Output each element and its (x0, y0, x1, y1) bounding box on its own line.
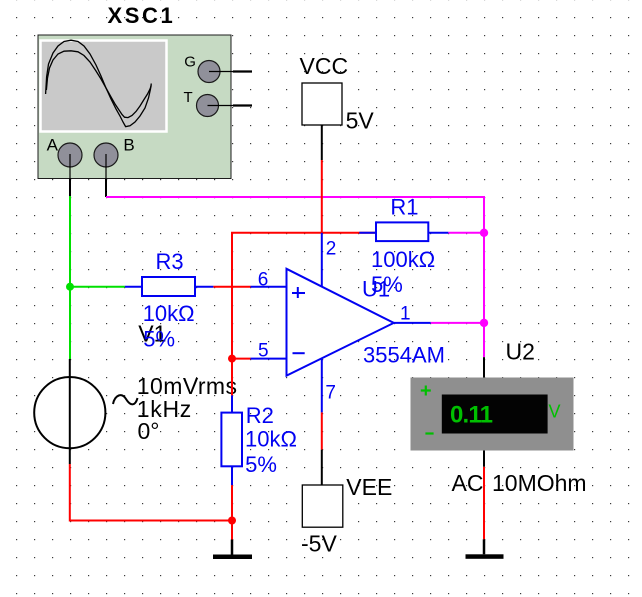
terminal A (58, 143, 82, 167)
node green junction (66, 283, 74, 291)
wire pin 7 black to VEE (321, 450, 323, 485)
V1 tilde symbol (113, 395, 138, 404)
wire red bottom left (70, 464, 232, 521)
ground 1 (231, 540, 234, 555)
source V1 (34, 377, 105, 448)
terminal B (94, 143, 118, 167)
node red junction bottom (228, 517, 236, 525)
resistor R1 (376, 222, 428, 241)
svg-text:10kΩ: 10kΩ (143, 301, 195, 326)
node red junction pin5 (228, 355, 236, 363)
scope trace B (46, 51, 151, 118)
svg-text:6: 6 (258, 269, 269, 290)
wire output blue (394, 322, 431, 324)
resistor R3 (142, 277, 195, 296)
wire red to ground1 (231, 485, 233, 539)
wire pin 7 red (321, 412, 323, 449)
svg-text:VEE: VEE (346, 474, 392, 500)
wire blue into pin 6 (251, 286, 287, 288)
svg-text:XSC1: XSC1 (108, 3, 176, 28)
wire magenta horizontal top (106, 197, 484, 357)
svg-text:A: A (47, 136, 59, 155)
svg-text:U1: U1 (362, 276, 390, 301)
wire blue into pin 5 (251, 358, 287, 360)
svg-text:0.11: 0.11 (450, 402, 493, 429)
wire V1 vertical black (69, 359, 71, 464)
svg-text:10kΩ: 10kΩ (245, 427, 297, 452)
svg-text:T: T (184, 89, 193, 106)
wire red pin5 stub (232, 358, 251, 360)
svg-text:R3: R3 (156, 249, 184, 274)
terminal G (198, 61, 220, 83)
svg-text:VCC: VCC (300, 53, 349, 79)
node magenta junction output (480, 319, 488, 327)
svg-text:5%: 5% (143, 326, 175, 351)
svg-text:R1: R1 (390, 195, 418, 220)
svg-text:AC: AC (452, 470, 484, 496)
svg-text:0°: 0° (138, 418, 160, 444)
wire VCC red (321, 160, 323, 233)
power VEE (302, 485, 343, 527)
wire B black segment (105, 179, 107, 197)
svg-text:B: B (123, 136, 134, 155)
wire green horizontal to R3 (70, 286, 125, 288)
wire VCC black (321, 125, 323, 160)
wire red down to R2 (231, 359, 233, 396)
svg-text:100kΩ: 100kΩ (371, 247, 435, 272)
svg-text:U2: U2 (506, 339, 535, 365)
meter plus mark (421, 386, 431, 396)
svg-text:10MOhm: 10MOhm (492, 470, 587, 496)
wire blue pin 2 (321, 233, 323, 287)
wire meter top black (483, 357, 485, 377)
wire A green vertical (69, 196, 71, 359)
meter minus mark (425, 432, 433, 434)
svg-text:R2: R2 (246, 403, 274, 428)
oscilloscope screen (41, 41, 167, 132)
op-amp U1 (287, 269, 394, 376)
svg-text:5%: 5% (245, 452, 277, 477)
wire meter red (483, 467, 485, 540)
wire meter bottom black (483, 451, 485, 467)
svg-text:5: 5 (258, 341, 269, 362)
svg-text:-5V: -5V (301, 530, 337, 556)
wire R3 right lead blue (195, 286, 213, 288)
svg-text:7: 7 (325, 383, 336, 404)
wire R1 right lead blue (428, 232, 448, 234)
wire A black segment (69, 179, 71, 197)
wire output magenta (431, 322, 484, 324)
wire pin 7 blue (321, 359, 323, 413)
svg-text:G: G (184, 53, 196, 70)
wire G stub (233, 70, 252, 72)
scope trace A (46, 40, 152, 126)
svg-text:2: 2 (326, 239, 337, 260)
wire T stub (233, 104, 252, 106)
power VCC (302, 83, 342, 125)
ground 2 (483, 539, 486, 554)
wire R1 left lead blue (359, 232, 376, 234)
wire red vertical center net (232, 233, 377, 359)
wire R3 left lead blue (125, 286, 142, 288)
oscilloscope XSC1 body (38, 35, 231, 179)
svg-text:V: V (549, 402, 561, 422)
wire blue R2 top lead (231, 395, 233, 412)
wire magenta R1 to node (448, 232, 484, 234)
svg-text:3554AM: 3554AM (363, 343, 445, 368)
svg-text:1: 1 (400, 304, 411, 325)
wire red segment on pin6 row (213, 286, 250, 288)
node magenta junction R1 (480, 229, 488, 237)
resistor R2 (221, 413, 242, 467)
svg-text:5V: 5V (346, 108, 375, 134)
terminal T (197, 95, 219, 117)
multimeter U2 (411, 378, 574, 451)
wire R2 bottom lead blue (231, 466, 233, 485)
